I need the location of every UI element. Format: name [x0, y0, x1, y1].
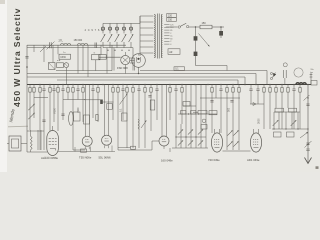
wire continue x157 — [156, 91, 158, 121]
resistor R26 — [287, 88, 289, 93]
wire continue x170 — [169, 92, 171, 120]
resistor R4 — [49, 88, 51, 93]
oscillator box — [92, 55, 101, 60]
trimmer arrow IF — [40, 46, 46, 52]
resistor R7 — [72, 88, 74, 93]
fuse block F2 — [194, 52, 198, 56]
wire drop x123 — [122, 85, 124, 90]
resistor R13 — [132, 88, 134, 93]
capacitor C13 — [256, 88, 259, 90]
resistor R20 — [232, 88, 234, 93]
wire continue x151 — [150, 92, 152, 131]
wire left feeder — [26, 45, 28, 85]
wire vertical x114 — [113, 48, 115, 71]
wire drop x83 — [82, 85, 84, 88]
wire vertical x83 — [82, 45, 84, 70]
wire continue x34 — [33, 92, 35, 118]
wire corner to rail — [196, 65, 228, 67]
capacitor C3 — [52, 88, 55, 90]
cathode box V4 — [131, 146, 136, 149]
capacitor C10 — [174, 88, 177, 90]
wire continue x294 — [293, 91, 295, 130]
switch contact S2 x188.5 — [188, 129, 193, 134]
output coil dark — [296, 83, 306, 85]
dial scale circle — [294, 68, 303, 77]
junction on main rail x113 — [112, 84, 114, 86]
capacitor C-mid44 — [42, 119, 45, 121]
switch contact S3b — [233, 130, 238, 135]
wire mains run 2 — [189, 26, 200, 28]
junction on main rail x123 — [122, 84, 124, 86]
capacitor C14 — [292, 88, 295, 90]
winding — [154, 15, 155, 58]
wire vertical x112 — [111, 45, 113, 70]
wire transformer right tap y24.5 — [164, 24, 169, 26]
cathode resistor box V2 — [81, 149, 87, 152]
wire link y99.8 — [84, 99, 101, 101]
capacitor box S4-1 — [275, 108, 284, 112]
capacitor C7 — [121, 88, 124, 90]
resistor R22 — [263, 88, 265, 93]
wire transformer left tap y35 — [140, 34, 153, 36]
resistor R5 — [57, 88, 59, 93]
switch contact S3c — [227, 141, 232, 146]
resistor R-zz small — [138, 119, 139, 130]
AF box — [122, 113, 128, 121]
loudspeaker transformer — [9, 136, 21, 151]
wire link y97.5 — [34, 97, 48, 99]
wire continue x139 — [138, 91, 140, 149]
output tube AL4 — [47, 131, 59, 156]
svg-text:450 W Ultra Selectiv: 450 W Ultra Selectiv — [12, 8, 22, 107]
wire drop x227 — [226, 85, 228, 88]
wire drop x151 — [150, 85, 152, 88]
lamp circle above cap stack — [283, 63, 287, 67]
wire drop x276 — [275, 85, 277, 88]
voltage selector box 150 — [167, 17, 177, 21]
capacitor C-link2 — [230, 100, 233, 102]
wire drop x233 — [232, 85, 234, 88]
junction on main rail x256 — [255, 84, 257, 86]
wire pickup drop — [65, 68, 67, 85]
wire drop x63 — [62, 85, 64, 90]
wire drop x113 — [112, 85, 114, 88]
wire bus B3 drop — [244, 77, 246, 85]
wire drop x251 — [250, 85, 252, 90]
wire tube top pins — [253, 129, 255, 133]
wire continue x145 — [144, 92, 146, 148]
wire left feeder bottom — [26, 85, 28, 153]
wire drop x118 — [117, 85, 119, 88]
wire link y104 — [250, 103, 264, 105]
resistor box 0.01 — [209, 111, 217, 115]
switch contact S4b — [291, 120, 297, 126]
wire drop x201 — [200, 85, 202, 125]
band box 2 — [84, 115, 90, 124]
switch arrow AF — [120, 94, 128, 105]
wire transformer left tap y22 — [140, 21, 153, 23]
junction on main rail x40 — [39, 84, 41, 86]
pickup arrow symbol — [300, 132, 308, 138]
svg-text:T55 N06e: T55 N06e — [79, 155, 92, 159]
junction on main rail x63 — [62, 84, 64, 86]
tuning indicator tube FSD908 — [121, 55, 130, 64]
switch array S3 rails — [226, 124, 228, 150]
switch contact S2b x188.5 — [188, 140, 193, 145]
page speck — [316, 166, 319, 169]
wire continue x54 — [53, 91, 55, 123]
wire S4 bottom rail — [272, 128, 308, 130]
bus line B1 (top rail) — [140, 70, 267, 72]
capacitor C4 — [61, 88, 64, 90]
wire drop x282 — [281, 85, 283, 88]
wire drop x258 — [257, 85, 259, 90]
dial lamp — [64, 63, 69, 68]
wire transformer left tap y47 — [140, 46, 153, 48]
junction mains left — [195, 26, 196, 27]
wire drop x58 — [57, 85, 59, 88]
wire continue x221 — [220, 91, 222, 134]
paper background — [0, 0, 320, 172]
switch contact S4a — [273, 120, 279, 126]
wire mains run — [166, 26, 178, 28]
wire continue x239 — [238, 92, 240, 124]
junction on main rail x270 — [269, 84, 271, 86]
wire continue x58 — [57, 92, 59, 131]
resistor R-grid — [96, 115, 98, 121]
electrolytic capacitor C-el — [219, 31, 223, 36]
wire V4 pin — [163, 146, 165, 149]
wire continue x113 — [112, 92, 114, 120]
wire drop x294 — [293, 85, 295, 90]
wire drop x288 — [287, 85, 289, 88]
resistor R14 — [144, 88, 146, 93]
shield box U-eye — [99, 55, 106, 60]
junction on main rail x294 — [293, 84, 295, 86]
antenna trim arrow — [304, 95, 310, 101]
junction on main rail x145 — [144, 84, 146, 86]
wire magic eye drop — [124, 65, 126, 74]
wire drop x166.5 — [166, 85, 168, 137]
wire pin ticks — [74, 147, 76, 152]
resistor R-zigzag field coil — [30, 136, 32, 150]
wire vertical x101 — [100, 45, 102, 54]
pushbutton switch S1 — [101, 27, 104, 30]
pushbutton switch S4 — [122, 27, 125, 30]
small box right — [311, 81, 317, 86]
capacitor C-link1 — [210, 100, 213, 102]
svg-text:UKW: UKW — [60, 56, 66, 59]
resistor R12 — [126, 88, 128, 93]
wire right column — [307, 85, 309, 158]
junction right column — [307, 97, 308, 98]
wire drop x157 — [156, 85, 158, 90]
wire continue x93 — [92, 91, 94, 119]
coil L2 — [78, 44, 88, 46]
resistor R10 — [112, 88, 114, 93]
wire bus B2 drop — [255, 74, 257, 85]
wire continue x133 — [132, 92, 134, 148]
resistor R21 — [238, 88, 240, 93]
wire AF bottom rail — [27, 151, 47, 153]
svg-text:150: 150 — [202, 22, 207, 25]
wire link y98 right — [200, 97, 240, 99]
junction rectifier to B2 — [138, 73, 139, 74]
switch array S2 row link 1 — [176, 136, 206, 138]
switch wedge dark — [273, 73, 276, 77]
wire transformer left tap bus — [139, 16, 141, 53]
capacitor C8 — [137, 88, 140, 90]
junction on main rail x233 — [232, 84, 234, 86]
wire transformer right tap y38.5 — [164, 38, 169, 40]
junction S4 x298 — [297, 128, 298, 129]
wire bus B4 drop — [237, 80, 239, 85]
tube envelope at x106.6 — [102, 135, 112, 145]
wire drop x270 — [269, 85, 271, 88]
capacitor box on y114 a — [181, 111, 186, 114]
capacitor C11 — [219, 88, 222, 90]
wire drop x104.5 — [104, 85, 106, 136]
wire continue x50 — [49, 92, 51, 131]
junction on main rail x83 — [82, 84, 84, 86]
wire rectifier cathode drop — [138, 67, 140, 73]
tube envelope at x217.0 — [211, 133, 222, 152]
wire link y99.5 — [63, 99, 85, 101]
capacitor C-right — [306, 103, 309, 105]
junction on main rail x195 — [194, 84, 196, 86]
capacitor C-out1 — [306, 142, 309, 144]
switch contact S2 x198.5 — [198, 129, 203, 134]
electrolytic capacitor C-el2 — [69, 112, 74, 126]
wire screen box link — [99, 56, 121, 58]
wire drop x78 — [77, 85, 79, 90]
wire drop x300 — [299, 85, 301, 88]
wire tube pins — [84, 146, 86, 149]
wire drop x54 — [53, 85, 55, 90]
wire drop x133 — [132, 85, 134, 88]
resistor R9 — [97, 88, 99, 93]
wire x34 stub — [33, 45, 35, 52]
wire transformer right tap y41.3 — [164, 40, 169, 42]
wire AVC link — [183, 105, 196, 107]
svg-text:500: 500 — [228, 107, 231, 112]
wire drop x212 — [211, 85, 213, 88]
svg-text:AH100 0058e: AH100 0058e — [41, 156, 59, 160]
corner smudge — [0, 0, 5, 4]
junction on main rail x170 — [169, 84, 171, 86]
bus line B4 — [57, 79, 238, 81]
wire heater rail — [58, 151, 115, 153]
switch contact S2b x198.5 — [198, 140, 203, 145]
wire drop x68 — [67, 85, 69, 88]
wire continue x264 — [263, 92, 265, 129]
svg-text:55L 06N6: 55L 06N6 — [99, 155, 111, 159]
coupling box — [107, 104, 112, 110]
wire vertical x78 — [77, 45, 79, 73]
wire drop x108.5 — [108, 85, 110, 136]
wire continue x251 — [250, 91, 252, 105]
svg-text:3000: 3000 — [258, 118, 261, 124]
junction on main rail x282 — [281, 84, 283, 86]
wire bottom tube stubs — [73, 149, 85, 151]
resistor R-mains 150 — [200, 25, 212, 29]
wire drop x30 — [29, 85, 31, 88]
junction on main rail x245 — [244, 84, 246, 86]
junction y114 b — [198, 113, 199, 114]
bus line B5 (main rail) — [27, 84, 311, 86]
wave switch contact a — [28, 104, 34, 110]
wire transformer right tap y35.7 — [164, 35, 169, 37]
wire switch bank bottom link — [103, 47, 133, 49]
wire S4 rails — [273, 112, 275, 129]
wire continue x127 — [126, 92, 128, 148]
wire S4 top rail — [274, 111, 300, 113]
wire drop x145 — [144, 85, 146, 88]
wire bottom link mid — [118, 149, 152, 151]
resistor R16 — [169, 88, 171, 93]
resistor R25 — [281, 88, 283, 93]
wire drop x139 — [138, 85, 140, 90]
wire bottom link V1 area — [37, 130, 39, 150]
bus line B3 — [27, 76, 245, 78]
wire drop x73 — [72, 85, 74, 88]
wire transformer right tap y30.1 — [164, 29, 169, 31]
wire link y114 — [178, 113, 217, 115]
svg-text:160 049e: 160 049e — [161, 159, 173, 163]
wire tuning rail lower — [27, 46, 101, 48]
resistor R27 — [299, 88, 301, 93]
switch contact S2b x178.5 — [178, 140, 183, 145]
AVC box — [183, 102, 190, 107]
svg-text:1500: 1500 — [77, 107, 80, 113]
wire drop x264 — [263, 85, 265, 88]
junction on main rail x208 — [207, 84, 209, 86]
wire transformer left tap y41 — [140, 40, 153, 42]
wave switch contact b — [28, 113, 34, 119]
wire V4 link — [151, 141, 153, 150]
svg-text:0,1: 0,1 — [120, 108, 123, 112]
wire continue x98 — [97, 92, 99, 122]
wire continue x276 — [275, 92, 277, 108]
wire continue x212 — [211, 92, 213, 133]
wire osc drop — [95, 60, 97, 71]
switch contact S3d — [233, 141, 238, 146]
resistor R18 — [211, 88, 213, 93]
wire tap bus to rectifier — [139, 53, 141, 56]
trimmer arrow output — [305, 141, 312, 148]
wire mains run 3 — [212, 26, 224, 28]
svg-text:V100: V100 — [54, 108, 57, 114]
junction y114 a — [188, 113, 189, 114]
wire transformer right tap y32.9 — [164, 32, 169, 34]
capacitor C6 — [91, 88, 94, 90]
junction on main rail x50 — [49, 84, 51, 86]
junction S2 x176 — [175, 136, 176, 137]
winding — [161, 15, 162, 58]
wire continue x288 — [287, 92, 289, 108]
wire continue x30 — [29, 92, 31, 130]
wire drop x85.5 — [85, 85, 87, 137]
resistor R-out tick — [306, 148, 310, 150]
wire vertical x58 — [57, 45, 59, 54]
junction on main rail x133 — [132, 84, 134, 86]
rectifier inner anode blob — [137, 58, 139, 60]
wire continue x40 — [39, 92, 41, 150]
wire transformer left tap y53 — [140, 52, 153, 54]
junction on main rail x93 — [92, 84, 94, 86]
wire switch bank to transformer — [139, 16, 141, 23]
capacitor block 0.1uF — [174, 67, 185, 71]
resistor R6 — [67, 88, 69, 93]
wire drop x239 — [238, 85, 240, 88]
wire mains drop x195.5 — [195, 27, 197, 66]
pushbutton switch S5 — [129, 27, 132, 30]
resistor R2 — [33, 88, 35, 93]
resistor R3 — [39, 88, 41, 93]
wire link y112 — [193, 111, 198, 113]
wire drop x182 — [181, 85, 183, 88]
resistor R17 — [181, 88, 183, 93]
wire switch bank top link — [103, 22, 140, 24]
wire drop x127 — [126, 85, 128, 88]
wire bus B1 drop — [266, 71, 268, 85]
wire continue x63 — [62, 91, 64, 121]
wire speaker link — [21, 143, 27, 145]
junction S4 x274 — [273, 128, 274, 129]
junction S2 x196 — [195, 136, 196, 137]
diode D1 — [253, 103, 256, 106]
junction mains — [220, 26, 222, 28]
pushbutton switch S2 — [108, 27, 111, 30]
wire tube top pins — [214, 129, 216, 133]
wire transformer left tap y16 — [140, 15, 153, 17]
tube envelope at x256.0 — [250, 133, 261, 152]
svg-text:G: G — [94, 52, 96, 54]
svg-text:AD1 049e: AD1 049e — [247, 158, 260, 162]
junction on main rail x73 — [72, 84, 74, 86]
voltage selector box 220 — [167, 13, 177, 17]
switch array S2 rails — [175, 124, 177, 148]
wire drop x170 — [169, 85, 171, 88]
grid box — [201, 125, 207, 130]
UKW box — [59, 54, 71, 59]
resistor R24 — [275, 88, 277, 93]
wire drop x162 — [161, 85, 163, 137]
wire zigzag bottom — [30, 150, 32, 152]
resistor R19 — [226, 88, 228, 93]
junction on main rail x157 — [156, 84, 158, 86]
wire drop x196 — [195, 85, 197, 125]
wire vertical x134.5 eye pins — [134, 58, 136, 71]
wire bottom link mid 2 — [118, 147, 131, 149]
wire drop x216 — [215, 85, 217, 99]
resistor R11 — [117, 88, 119, 93]
coil L1 — [61, 44, 71, 46]
pushbutton switch S3 — [115, 27, 118, 30]
antenna ticks x311 — [310, 72, 312, 85]
wire drop x89.5 — [89, 85, 91, 137]
wire drop x191 — [190, 85, 192, 125]
wire output tube anode — [52, 126, 54, 131]
capacitor C12 — [249, 88, 252, 90]
wire transformer right tap y44.1 — [164, 43, 169, 45]
wire tube pins — [104, 145, 106, 148]
capacitor stack right — [283, 70, 285, 78]
wire drop x40 — [39, 85, 41, 88]
switch S-right — [270, 72, 272, 74]
tone box S4-3 — [274, 132, 282, 137]
resistor R-750 box — [198, 111, 207, 114]
